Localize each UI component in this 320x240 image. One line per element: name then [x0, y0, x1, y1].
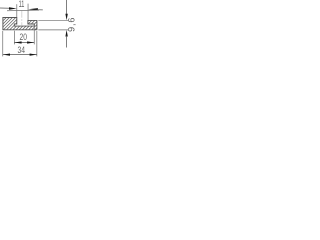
background: [0, 0, 76, 60]
svg-text:20: 20: [19, 32, 27, 42]
dimension 9,6 (right): extension line top: [38, 19, 68, 21]
dimension 20: extension line right: [33, 27, 35, 45]
dimension 34: extension line right: [36, 31, 38, 56]
dimension 34: extension line left: [2, 31, 4, 56]
svg-text:9,6: 9,6: [67, 17, 76, 32]
part outline (T-slot cross-section): [3, 18, 37, 30]
dimension 9,6: extension line bottom: [38, 29, 68, 31]
dimension 9,6: top tail line: [66, 0, 68, 15]
dimension 9,6: bottom arrow (outside, pointing up): [65, 30, 67, 37]
dimension 34: left arrow: [3, 53, 10, 55]
dimension 11: left tail line: [0, 7, 10, 9]
dimension 20: extension line left: [13, 31, 15, 45]
svg-text:34: 34: [17, 45, 25, 55]
dimension 20: right arrow: [27, 41, 34, 43]
dimension 9,6: top arrow (outside, pointing down): [65, 14, 67, 20]
dimension 11: right tail line: [37, 9, 43, 11]
hatch of T-slot profile section: [0, 0, 65, 36]
dimension 11: left arrow (outside, pointing right): [9, 7, 17, 9]
dimension 11: dimension line between extension lines: [7, 9, 39, 12]
centerline of slot opening: [21, 11, 23, 26]
svg-text:11: 11: [19, 0, 25, 9]
dimension 34: dimension line: [3, 54, 37, 56]
dimension 34: right arrow: [30, 53, 37, 55]
dimension 11 (top): extension line left: [16, 4, 18, 17]
dimension 20: dimension line: [14, 42, 34, 44]
dimension 11: extension line right: [27, 4, 29, 21]
dimension 20: left arrow: [15, 41, 22, 43]
dimension 11: right arrow (outside, pointing left): [28, 8, 38, 10]
dimension 9,6: bottom tail line: [66, 36, 68, 48]
